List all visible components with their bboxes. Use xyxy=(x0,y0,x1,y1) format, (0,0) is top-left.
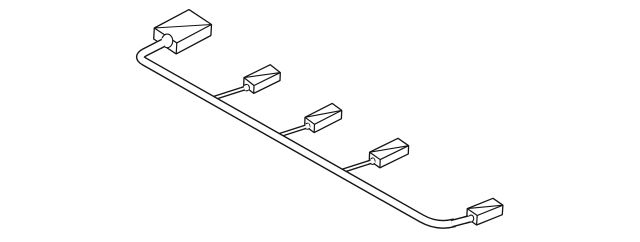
cable end at module grommet xyxy=(157,39,169,48)
grommet of connector B xyxy=(244,84,250,90)
connector E (end of cable) xyxy=(467,198,503,225)
connector B xyxy=(244,65,281,94)
grommet of connector E (end of cable) xyxy=(469,215,474,222)
branch wire stub 2 (to connector C3) xyxy=(274,126,309,137)
wire end at connector C xyxy=(301,125,309,129)
control module box xyxy=(154,10,212,54)
cable end segment into last connector xyxy=(452,218,473,224)
branch wire stub 1 (to connector C2) xyxy=(209,87,248,100)
connector C xyxy=(305,103,342,132)
branch wire stub 3 (to connector C4) xyxy=(337,161,374,173)
wire end at connector D xyxy=(366,160,374,164)
module grommet xyxy=(162,34,173,48)
main harness cable (trunk) xyxy=(140,40,454,225)
wire end at connector E (end of cable) xyxy=(464,216,472,223)
connector D xyxy=(369,138,408,168)
wire end at connector B xyxy=(240,87,248,91)
grommet of connector D xyxy=(370,158,375,165)
grommet of connector C xyxy=(305,123,310,129)
